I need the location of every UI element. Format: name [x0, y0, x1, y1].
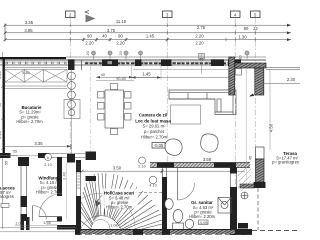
svg-text:3.95: 3.95 — [24, 28, 33, 33]
svg-text:Camera de zi/: Camera de zi/ — [139, 113, 168, 118]
gr sanitar right wall — [230, 168, 237, 174]
wall block bottom right of gr sanitar — [238, 223, 248, 229]
svg-text:90: 90 — [118, 33, 123, 38]
vertical dim line mid right — [246, 68, 248, 184]
chair bottom — [111, 129, 118, 135]
sofa L-shape — [169, 90, 236, 115]
extra fan lines — [81, 173, 162, 234]
wall kitchen bottom: door gap lines — [11, 155, 39, 157]
top exterior wall band — [0, 57, 266, 65]
svg-text:90: 90 — [239, 55, 243, 59]
windfang left wall black bottom — [21, 214, 28, 221]
dim tick arrows dining — [96, 76, 133, 78]
svg-text:3.35: 3.35 — [34, 141, 43, 146]
wall kitchen bottom: seg2 — [38, 153, 49, 158]
svg-text:3.75: 3.75 — [107, 28, 116, 33]
svg-text:2.20: 2.20 — [85, 41, 94, 46]
svg-text:-0.05: -0.05 — [199, 221, 208, 225]
jamb line — [81, 60, 83, 70]
left exterior wall — [3, 60, 5, 157]
svg-text:2.10: 2.10 — [44, 163, 51, 167]
svg-text:Hliber= 2.70m: Hliber= 2.70m — [36, 190, 63, 195]
svg-text:40: 40 — [101, 73, 105, 77]
vertical dim 4.50 — [269, 70, 271, 151]
terasa right wall hatched — [256, 159, 265, 182]
svg-text:11.10: 11.10 — [116, 19, 127, 24]
armchair blob left — [165, 139, 182, 156]
svg-text:2.20: 2.20 — [195, 33, 204, 38]
svg-text:2.40: 2.40 — [63, 172, 67, 179]
pillar A grid4 — [229, 57, 235, 95]
window sill dash row living — [85, 63, 228, 65]
45 window marker striped — [199, 54, 205, 60]
circle chain kitchen/dining divider — [64, 68, 80, 155]
left boundary line — [2, 52, 4, 229]
bottom wall windfang door frame — [21, 217, 25, 230]
svg-text:2.10: 2.10 — [138, 165, 145, 169]
left edge tiny rotated dims — [0, 71, 9, 165]
bidet — [185, 219, 193, 228]
living room top-right corner wall: horizontal band — [235, 63, 266, 68]
windfang door arc — [39, 194, 62, 217]
dining table — [105, 90, 124, 128]
toilet — [173, 210, 184, 230]
wall pier — [135, 60, 142, 67]
shower tray — [218, 198, 231, 214]
staircase fan — [81, 173, 162, 237]
shaft rungs left of stairs — [77, 164, 81, 188]
svg-text:3.50: 3.50 — [113, 166, 122, 171]
terasa text block — [272, 151, 299, 165]
dim line row 1 — [5, 24, 291, 28]
svg-text:2.20: 2.20 — [0, 71, 2, 78]
chairs left — [98, 92, 105, 121]
terrace edge line bottom-left — [0, 226, 78, 228]
grid line 5 — [254, 18, 256, 148]
left edge ticks — [1, 85, 4, 150]
washbasin left wall — [165, 199, 173, 210]
svg-text:90: 90 — [0, 103, 2, 107]
stair center circle — [91, 220, 110, 230]
stair first tread block — [86, 176, 97, 181]
svg-text:nitogres: nitogres — [0, 194, 14, 199]
niche small rect — [236, 69, 242, 76]
entrance door arc — [33, 206, 47, 220]
north arrow — [86, 15, 96, 23]
bottom wall right section — [75, 229, 252, 235]
wall pier — [211, 60, 224, 67]
wall pier grid3 — [161, 60, 172, 67]
pillar stair top-left — [86, 152, 97, 161]
windfang text block — [36, 176, 63, 195]
gr sanitar door arc — [178, 183, 195, 200]
grid bubble 3 — [163, 11, 173, 18]
svg-text:3.35: 3.35 — [25, 20, 34, 25]
dim ticks slanted row3 — [82, 38, 169, 41]
grid bubble 4 — [231, 11, 241, 18]
dim left end ticks — [4, 24, 7, 42]
door tag circle gr sanitar — [149, 176, 157, 184]
svg-text:Hliber= 2.70m: Hliber= 2.70m — [16, 119, 43, 124]
wall pier corner — [228, 60, 241, 67]
svg-text:2.20: 2.20 — [116, 41, 125, 46]
grid line 3 — [166, 18, 168, 165]
terasa boundary dashed — [257, 188, 259, 230]
gr sanitar top wall — [150, 163, 250, 168]
dim 1.45 living — [132, 77, 233, 79]
corner pillar windfang — [18, 157, 29, 166]
secondary dash reference line — [90, 66, 92, 160]
door tag circle kitchen — [45, 154, 52, 161]
svg-text:4.50: 4.50 — [269, 123, 274, 132]
stair hall left wall — [76, 160, 81, 172]
svg-text:5.85: 5.85 — [22, 71, 29, 75]
wall stub end arrow — [249, 94, 254, 97]
stair walkline dashed — [97, 193, 162, 204]
grid line 2 — [69, 18, 71, 159]
svg-text:55: 55 — [5, 161, 9, 165]
windfang left wall window — [21, 166, 27, 196]
level box gr sanitar — [199, 220, 209, 225]
wall kitchen bottom: window part — [49, 154, 85, 158]
svg-text:1.55: 1.55 — [43, 221, 50, 225]
svg-text:4.10: 4.10 — [149, 184, 156, 188]
gr sanitar text block — [189, 200, 216, 219]
wall pier grid2 — [68, 60, 75, 71]
level box terasa acces — [1, 204, 9, 208]
svg-text:p= parchet: p= parchet — [144, 129, 165, 134]
kitchen counter — [5, 68, 67, 89]
dim ticks 3.50 line — [81, 170, 164, 173]
svg-text:1.45: 1.45 — [146, 33, 155, 38]
svg-text:2.75: 2.75 — [197, 25, 206, 30]
svg-text:2.20: 2.20 — [195, 41, 204, 46]
svg-text:Hliber= 2.20m: Hliber= 2.20m — [189, 214, 216, 219]
svg-text:Hliber= 2.70m: Hliber= 2.70m — [106, 204, 133, 209]
wall kitchen bottom: seg1 — [0, 153, 11, 158]
svg-text:22: 22 — [253, 26, 258, 31]
svg-text:S= 29.61 m²: S= 29.61 m² — [143, 124, 167, 129]
grid bubble 5 — [251, 11, 261, 18]
terasa wall bottom block — [254, 182, 266, 188]
beam line under windows — [133, 69, 229, 71]
svg-text:1.45: 1.45 — [142, 72, 151, 77]
windfang left wall window2 — [21, 207, 27, 214]
window glazing line top — [0, 62, 228, 64]
chairs right — [125, 92, 132, 121]
grid bubble 2 — [66, 11, 76, 18]
svg-text:-0.05: -0.05 — [154, 143, 164, 148]
svg-text:90.40: 90.40 — [116, 77, 126, 81]
terasa top edge — [266, 67, 300, 69]
pillar B grid5 wall stub — [255, 68, 264, 95]
window tag bulbs above band — [91, 51, 249, 60]
stair outer guide arc — [81, 193, 135, 225]
tag circle hall — [139, 157, 146, 164]
svg-text:55: 55 — [13, 150, 17, 154]
armchair blob right — [201, 134, 218, 152]
svg-text:Hliber= 2.70m: Hliber= 2.70m — [141, 135, 168, 140]
svg-text:2.30: 2.30 — [287, 77, 296, 82]
kitchen text block — [16, 105, 43, 124]
dining dim line — [96, 76, 160, 78]
svg-text:p= granitogres: p= granitogres — [272, 160, 299, 165]
window frame ticks — [6, 62, 208, 65]
svg-text:1.00: 1.00 — [15, 222, 22, 226]
coffee table — [171, 105, 201, 124]
svg-text:3.58: 3.58 — [203, 157, 212, 162]
hall text block — [102, 189, 138, 210]
dim arrows right ends — [287, 24, 291, 41]
stair inner arc — [81, 216, 122, 232]
svg-text:1.30: 1.30 — [238, 34, 247, 39]
windfang left wall black low — [21, 196, 28, 207]
vertical dim line hall left — [66, 163, 68, 219]
svg-text:40: 40 — [102, 33, 107, 38]
terasa acces text — [0, 186, 15, 200]
diagonal hatch niche right of gr sanitar — [238, 164, 251, 191]
grid line 4 — [234, 18, 236, 236]
chair top — [111, 84, 118, 90]
svg-text:20: 20 — [86, 51, 90, 55]
svg-text:45: 45 — [249, 156, 253, 160]
svg-text:2.20: 2.20 — [0, 131, 2, 138]
svg-text:45: 45 — [199, 58, 203, 62]
svg-text:1.08: 1.08 — [110, 224, 117, 228]
dim line row 3 — [5, 38, 291, 42]
dim line row 2 — [5, 31, 291, 35]
wall pier — [102, 60, 118, 67]
wall block at grid2 — [67, 154, 75, 163]
svg-text:Loc de luat masa: Loc de luat masa — [135, 118, 171, 123]
svg-text:90: 90 — [87, 33, 92, 38]
gr sanitar left wall — [162, 177, 167, 230]
svg-text:b: b — [47, 156, 49, 160]
terasa right wall window frame — [256, 147, 265, 159]
horizontal band left of it — [240, 184, 254, 188]
svg-text:20: 20 — [119, 51, 123, 55]
column symbol circle-cross — [241, 192, 248, 199]
living room text block — [135, 113, 171, 149]
windfang right wall — [57, 157, 62, 196]
svg-text:80: 80 — [244, 26, 249, 31]
